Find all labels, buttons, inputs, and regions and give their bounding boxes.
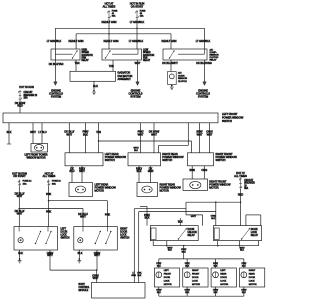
relay K3 switch — [170, 51, 175, 58]
circuit breaker CB22 — [19, 90, 21, 101]
bus A left corner down to engine controls — [54, 28, 56, 82]
wire PNK/BLK to right rear door lock motor — [243, 259, 245, 268]
svg-text:LOCK: LOCK — [120, 235, 127, 237]
svg-text:ORG/: ORG/ — [241, 290, 247, 292]
svg-text:BLK: BLK — [18, 251, 23, 255]
svg-text:PNK/: PNK/ — [213, 263, 218, 265]
right rear power window motor box — [137, 183, 158, 197]
svg-text:DOOR: DOOR — [188, 229, 195, 231]
arrow to engine controls system (right) — [203, 82, 206, 85]
bus A right corner down to A/C clutch relay coil — [204, 28, 206, 49]
door lock relay coil — [214, 228, 219, 240]
ground G202 — [79, 258, 80, 259]
svg-text:RIGHT REAR: RIGHT REAR — [162, 152, 178, 156]
svg-text:PNK: PNK — [137, 273, 142, 275]
svg-text:BLK: BLK — [157, 292, 161, 294]
svg-text:LT GRN/BLK: LT GRN/BLK — [129, 39, 144, 43]
wire PNK/BLK to left front door lock motor — [158, 259, 160, 268]
svg-text:POWER WINDOW: POWER WINDOW — [160, 186, 182, 190]
svg-text:FUSE: FUSE — [140, 10, 146, 12]
svg-text:MOTOR: MOTOR — [209, 185, 218, 189]
svg-text:DOOR: DOOR — [192, 277, 199, 279]
svg-text:PNK/: PNK/ — [156, 263, 161, 265]
svg-text:SWITCH: SWITCH — [222, 119, 232, 123]
svg-text:RESSOR: RESSOR — [178, 78, 188, 80]
svg-text:CONTROL: CONTROL — [79, 287, 91, 289]
left rear door lock motor box — [211, 268, 236, 287]
svg-text:SWITCH: SWITCH — [105, 158, 115, 162]
svg-text:WHT: WHT — [17, 211, 23, 215]
junction of feed 2 on bus A — [136, 28, 137, 29]
svg-text:ENGINE: ENGINE — [131, 88, 141, 92]
svg-text:SYSTEM: SYSTEM — [130, 94, 140, 98]
svg-text:LOCK: LOCK — [61, 235, 68, 237]
svg-text:LOCK: LOCK — [164, 280, 170, 282]
svg-text:BLK: BLK — [242, 292, 246, 294]
svg-text:SWITCH: SWITCH — [162, 158, 172, 162]
left front power window motor box — [31, 144, 48, 153]
svg-text:FUSE 12: FUSE 12 — [52, 181, 62, 183]
svg-text:GRY: GRY — [191, 214, 197, 218]
svg-text:LOCK: LOCK — [251, 232, 258, 234]
body control module box — [92, 283, 146, 299]
left front power window master switch box — [3, 113, 218, 123]
svg-text:HOT IN RUN: HOT IN RUN — [19, 85, 34, 89]
svg-text:SWITCH: SWITCH — [61, 238, 70, 240]
right front power window motor box — [183, 179, 208, 191]
svg-text:WHT: WHT — [17, 194, 23, 198]
svg-text:WINDOW MOTOR: WINDOW MOTOR — [27, 157, 46, 159]
svg-text:LEFT REAR: LEFT REAR — [105, 152, 119, 156]
feed wire to door lock relays — [186, 201, 241, 203]
svg-text:LT GRN/BLK: LT GRN/BLK — [196, 39, 211, 43]
svg-text:PNK: PNK — [105, 213, 110, 217]
left front door lock motor symbol — [156, 272, 162, 278]
right rear door lock motor box — [239, 268, 264, 287]
svg-text:GRN: GRN — [131, 275, 136, 277]
svg-text:HIGH: HIGH — [82, 50, 88, 52]
svg-text:UNLOCK: UNLOCK — [188, 232, 198, 234]
svg-text:RIGHT: RIGHT — [249, 270, 256, 272]
svg-text:MOTOR: MOTOR — [249, 284, 257, 286]
svg-text:PNK/: PNK/ — [241, 263, 246, 265]
svg-text:DK BLU/WHT: DK BLU/WHT — [162, 61, 178, 65]
svg-text:CLUTCH: CLUTCH — [178, 81, 187, 83]
left rear power window switch box — [65, 153, 103, 166]
svg-text:ORG/: ORG/ — [185, 290, 191, 292]
svg-text:FRONT: FRONT — [192, 274, 200, 276]
relay K1 switch — [73, 51, 78, 58]
door unlock relay box — [150, 226, 198, 241]
relay K1 high speed radiator fan relay box — [51, 49, 80, 60]
drop to door lock relay coil — [215, 202, 216, 203]
svg-text:LT BLU: LT BLU — [38, 130, 46, 134]
svg-text:FRONT: FRONT — [164, 274, 172, 276]
svg-text:BLK: BLK — [242, 265, 246, 267]
door lock motor supply rail B — [159, 258, 244, 260]
svg-text:BODY: BODY — [79, 284, 86, 286]
svg-text:DOOR: DOOR — [120, 232, 127, 234]
svg-text:SYSTEM: SYSTEM — [198, 94, 208, 98]
fuse F4 30A — [108, 10, 110, 19]
wire PNK/BLK from rail A to rail B — [183, 246, 185, 259]
svg-text:BLK: BLK — [214, 265, 218, 267]
left door lock switch blades — [36, 232, 41, 244]
svg-text:HOT IN RUN: HOT IN RUN — [130, 2, 145, 6]
svg-text:ORG/: ORG/ — [211, 215, 217, 217]
svg-text:SPEED: SPEED — [82, 52, 90, 54]
wire ORG/BLK below left rear door lock motor — [215, 287, 217, 296]
svg-text:MOTOR: MOTOR — [164, 284, 172, 286]
right rear door lock motor symbol — [241, 272, 247, 278]
left rear power window motor box — [69, 183, 93, 197]
svg-text:CONTROLS: CONTROLS — [129, 91, 143, 95]
door lock relay switch — [242, 229, 250, 239]
svg-text:ORG/: ORG/ — [213, 290, 219, 292]
relay K2 low speed radiator fan relay box — [102, 49, 142, 60]
svg-text:POWER WINDOW: POWER WINDOW — [95, 186, 117, 190]
svg-text:MOTOR: MOTOR — [160, 189, 169, 193]
svg-text:BLK: BLK — [185, 292, 189, 294]
svg-text:DOOR: DOOR — [249, 277, 256, 279]
svg-text:WHT: WHT — [93, 276, 99, 280]
svg-text:LEFT: LEFT — [220, 270, 226, 272]
ground below A/C clutch — [171, 85, 172, 86]
wire PNK/BLK to left rear door lock motor — [215, 259, 217, 268]
wire ORG/BLK below right rear door lock motor — [243, 287, 245, 296]
svg-text:ENGINE: ENGINE — [198, 88, 208, 92]
svg-text:COMP-: COMP- — [210, 52, 217, 54]
svg-text:ORG/: ORG/ — [156, 290, 162, 292]
svg-text:PNK: PNK — [46, 209, 51, 213]
svg-text:CONTROLS: CONTROLS — [49, 91, 63, 95]
svg-text:BLK: BLK — [145, 216, 150, 220]
svg-text:HOT AT: HOT AT — [105, 2, 114, 6]
svg-text:ASSEMBLY: ASSEMBLY — [118, 77, 132, 81]
svg-text:RESSOR: RESSOR — [210, 55, 220, 57]
svg-text:MODULE: MODULE — [79, 290, 89, 292]
svg-text:DK BLU/TAN: DK BLU/TAN — [49, 62, 64, 66]
svg-text:COMP-: COMP- — [178, 75, 185, 77]
stub from unlock relay to rail A — [166, 241, 168, 246]
svg-text:POWER WINDOW: POWER WINDOW — [162, 155, 184, 159]
svg-text:DOOR: DOOR — [164, 277, 171, 279]
left door lock switch illumination lamp — [18, 238, 23, 243]
wire from unlock relay coil to rail A — [152, 241, 154, 246]
svg-text:FUSE: FUSE — [112, 10, 118, 12]
right door lock switch box — [74, 227, 118, 251]
svg-text:ENGINE: ENGINE — [51, 88, 61, 92]
svg-text:BLK: BLK — [185, 265, 189, 267]
svg-text:SPEED: SPEED — [143, 52, 151, 54]
relay K3 coil — [178, 53, 205, 55]
svg-text:CIRCUIT: CIRCUIT — [24, 92, 34, 94]
crossover wire to right front switch — [99, 140, 192, 142]
right end of rail A to lock relay — [258, 241, 260, 246]
right front power window switch box — [188, 153, 214, 166]
svg-text:LOCK: LOCK — [220, 280, 226, 282]
junction of feed 1 on bus B — [108, 33, 109, 34]
relay K2 switch — [106, 51, 111, 58]
svg-text:DOOR: DOOR — [220, 277, 227, 279]
svg-text:DOOR: DOOR — [251, 229, 258, 231]
door unlock relay switch — [178, 229, 186, 239]
wire ORG/BLK below right front door lock motor — [186, 287, 188, 296]
svg-text:FAN MOTOR: FAN MOTOR — [118, 74, 133, 78]
crossover wire to right rear switch pin 3 — [187, 123, 189, 146]
circuit breaker CB20 — [240, 178, 242, 190]
ground G201 — [19, 258, 20, 259]
wire ORG/WHT junction to body control module — [50, 269, 97, 271]
svg-text:ALL TIMES: ALL TIMES — [234, 174, 247, 178]
A/C compressor clutch box — [168, 72, 177, 85]
svg-text:LOCK: LOCK — [192, 280, 198, 282]
wire PNK/BLK to door unlock relay coil — [140, 205, 147, 207]
svg-text:RIGHT FRONT: RIGHT FRONT — [216, 152, 234, 156]
door lock relay output rail A — [153, 245, 258, 247]
svg-text:TAN: TAN — [75, 61, 80, 65]
svg-text:PNK/: PNK/ — [185, 263, 190, 265]
svg-text:GRY/: GRY/ — [240, 247, 245, 249]
svg-text:RED/LT GRN: RED/LT GRN — [104, 39, 119, 43]
wire ORG/BLK below left front door lock motor — [158, 287, 160, 296]
arrow to engine controls system (left) — [54, 82, 57, 85]
fuse F30 15A — [136, 10, 138, 19]
bus wire B RED/LT GRN horizontal — [76, 33, 171, 35]
svg-text:BLK: BLK — [211, 218, 215, 220]
right front door lock motor box — [183, 268, 208, 287]
svg-text:CIRCUIT: CIRCUIT — [244, 180, 254, 182]
svg-text:BLK: BLK — [78, 251, 83, 255]
svg-text:BLK: BLK — [214, 292, 218, 294]
branch PNK to right door lock switch — [48, 200, 49, 201]
svg-text:SYSTEM: SYSTEM — [51, 94, 61, 98]
svg-text:LEFT REAR: LEFT REAR — [95, 183, 109, 187]
wire PNK/BLK to right front door lock motor — [186, 259, 188, 268]
svg-text:PNK/: PNK/ — [181, 249, 186, 251]
left door lock switch box — [14, 227, 58, 251]
right door lock switch illumination lamp — [78, 238, 83, 243]
svg-text:OR START: OR START — [131, 5, 144, 9]
svg-text:DK BLU/ORG: DK BLU/ORG — [196, 61, 212, 65]
ground G100 below fan motor — [93, 90, 94, 91]
svg-text:BLK: BLK — [168, 250, 172, 252]
branch DK BLU/WHT to right door lock switch — [19, 208, 20, 209]
svg-text:GRY/: GRY/ — [167, 247, 172, 249]
arrow to engine controls system (middle) — [136, 82, 139, 85]
svg-text:RED/LT GRN: RED/LT GRN — [162, 39, 177, 43]
svg-text:LEFT: LEFT — [164, 270, 170, 272]
svg-text:LOW: LOW — [143, 50, 149, 52]
drop to door unlock relay jog — [185, 202, 187, 215]
svg-text:MOTOR: MOTOR — [192, 284, 200, 286]
svg-text:SWITCH: SWITCH — [120, 238, 129, 240]
stub from lock relay to rail A — [239, 241, 241, 246]
relay K2 coil — [112, 53, 138, 55]
left front door lock motor box — [154, 268, 179, 287]
wire PNK from BCM to lock relay coil jog — [138, 212, 140, 283]
svg-text:LEFT FRONT: LEFT FRONT — [222, 112, 238, 116]
svg-text:RADIATOR: RADIATOR — [118, 71, 131, 75]
svg-text:ALL TIMES: ALL TIMES — [103, 5, 116, 9]
svg-text:LOCK: LOCK — [249, 280, 255, 282]
svg-text:CONTROLS: CONTROLS — [196, 91, 210, 95]
svg-text:POWER WINDOW: POWER WINDOW — [222, 116, 244, 120]
right rear power window switch box — [128, 153, 161, 166]
svg-text:BLK: BLK — [240, 250, 244, 252]
svg-text:ALL TIMES: ALL TIMES — [43, 174, 56, 178]
wire LT GRN from BCM to unlock relay jog — [133, 209, 135, 283]
svg-text:SWITCH: SWITCH — [216, 158, 226, 162]
svg-text:POWER WINDOW: POWER WINDOW — [105, 155, 127, 159]
svg-text:RIGHT: RIGHT — [192, 270, 199, 272]
svg-text:RIGHT: RIGHT — [120, 229, 128, 231]
fuse F14 — [18, 180, 20, 187]
svg-text:POWER WINDOW: POWER WINDOW — [209, 182, 231, 186]
svg-text:LT GRN/BLK: LT GRN/BLK — [47, 39, 62, 43]
svg-text:BLK: BLK — [182, 251, 187, 253]
left rear door lock motor symbol — [213, 272, 219, 278]
svg-text:WHT: WHT — [80, 215, 86, 219]
relay K3 A/C compressor clutch relay box — [163, 49, 207, 60]
stub from lock relay coil to rail A — [217, 241, 219, 246]
door lock motor return rail — [159, 295, 244, 297]
svg-text:LEFT FRONT POWER: LEFT FRONT POWER — [25, 154, 48, 156]
svg-text:RIGHT FRONT: RIGHT FRONT — [209, 179, 227, 183]
svg-text:WHT/: WHT/ — [133, 147, 138, 149]
svg-text:FUSE 14: FUSE 14 — [23, 181, 33, 183]
bridge wire into lock relay pins — [245, 215, 247, 226]
door unlock relay coil — [151, 228, 156, 240]
door lock relay box — [214, 226, 262, 241]
relay K1 coil — [56, 53, 73, 55]
svg-text:POWER WINDOW: POWER WINDOW — [216, 155, 238, 159]
svg-text:CLUTCH: CLUTCH — [210, 57, 219, 59]
radiator fan motor assembly box — [70, 71, 116, 81]
right front door lock motor symbol — [184, 272, 190, 278]
svg-text:OR START: OR START — [13, 174, 26, 178]
svg-text:MOTOR: MOTOR — [95, 189, 104, 193]
bus wire A LT GRN/BLK horizontal — [55, 27, 204, 29]
fuse F12 — [48, 180, 50, 187]
svg-text:LEFT: LEFT — [61, 229, 67, 231]
svg-text:BLK: BLK — [157, 265, 161, 267]
svg-text:MOTOR: MOTOR — [220, 284, 228, 286]
svg-text:RIGHT REAR: RIGHT REAR — [160, 183, 176, 187]
right door lock switch blades — [95, 232, 100, 244]
svg-text:DOOR: DOOR — [61, 232, 68, 234]
